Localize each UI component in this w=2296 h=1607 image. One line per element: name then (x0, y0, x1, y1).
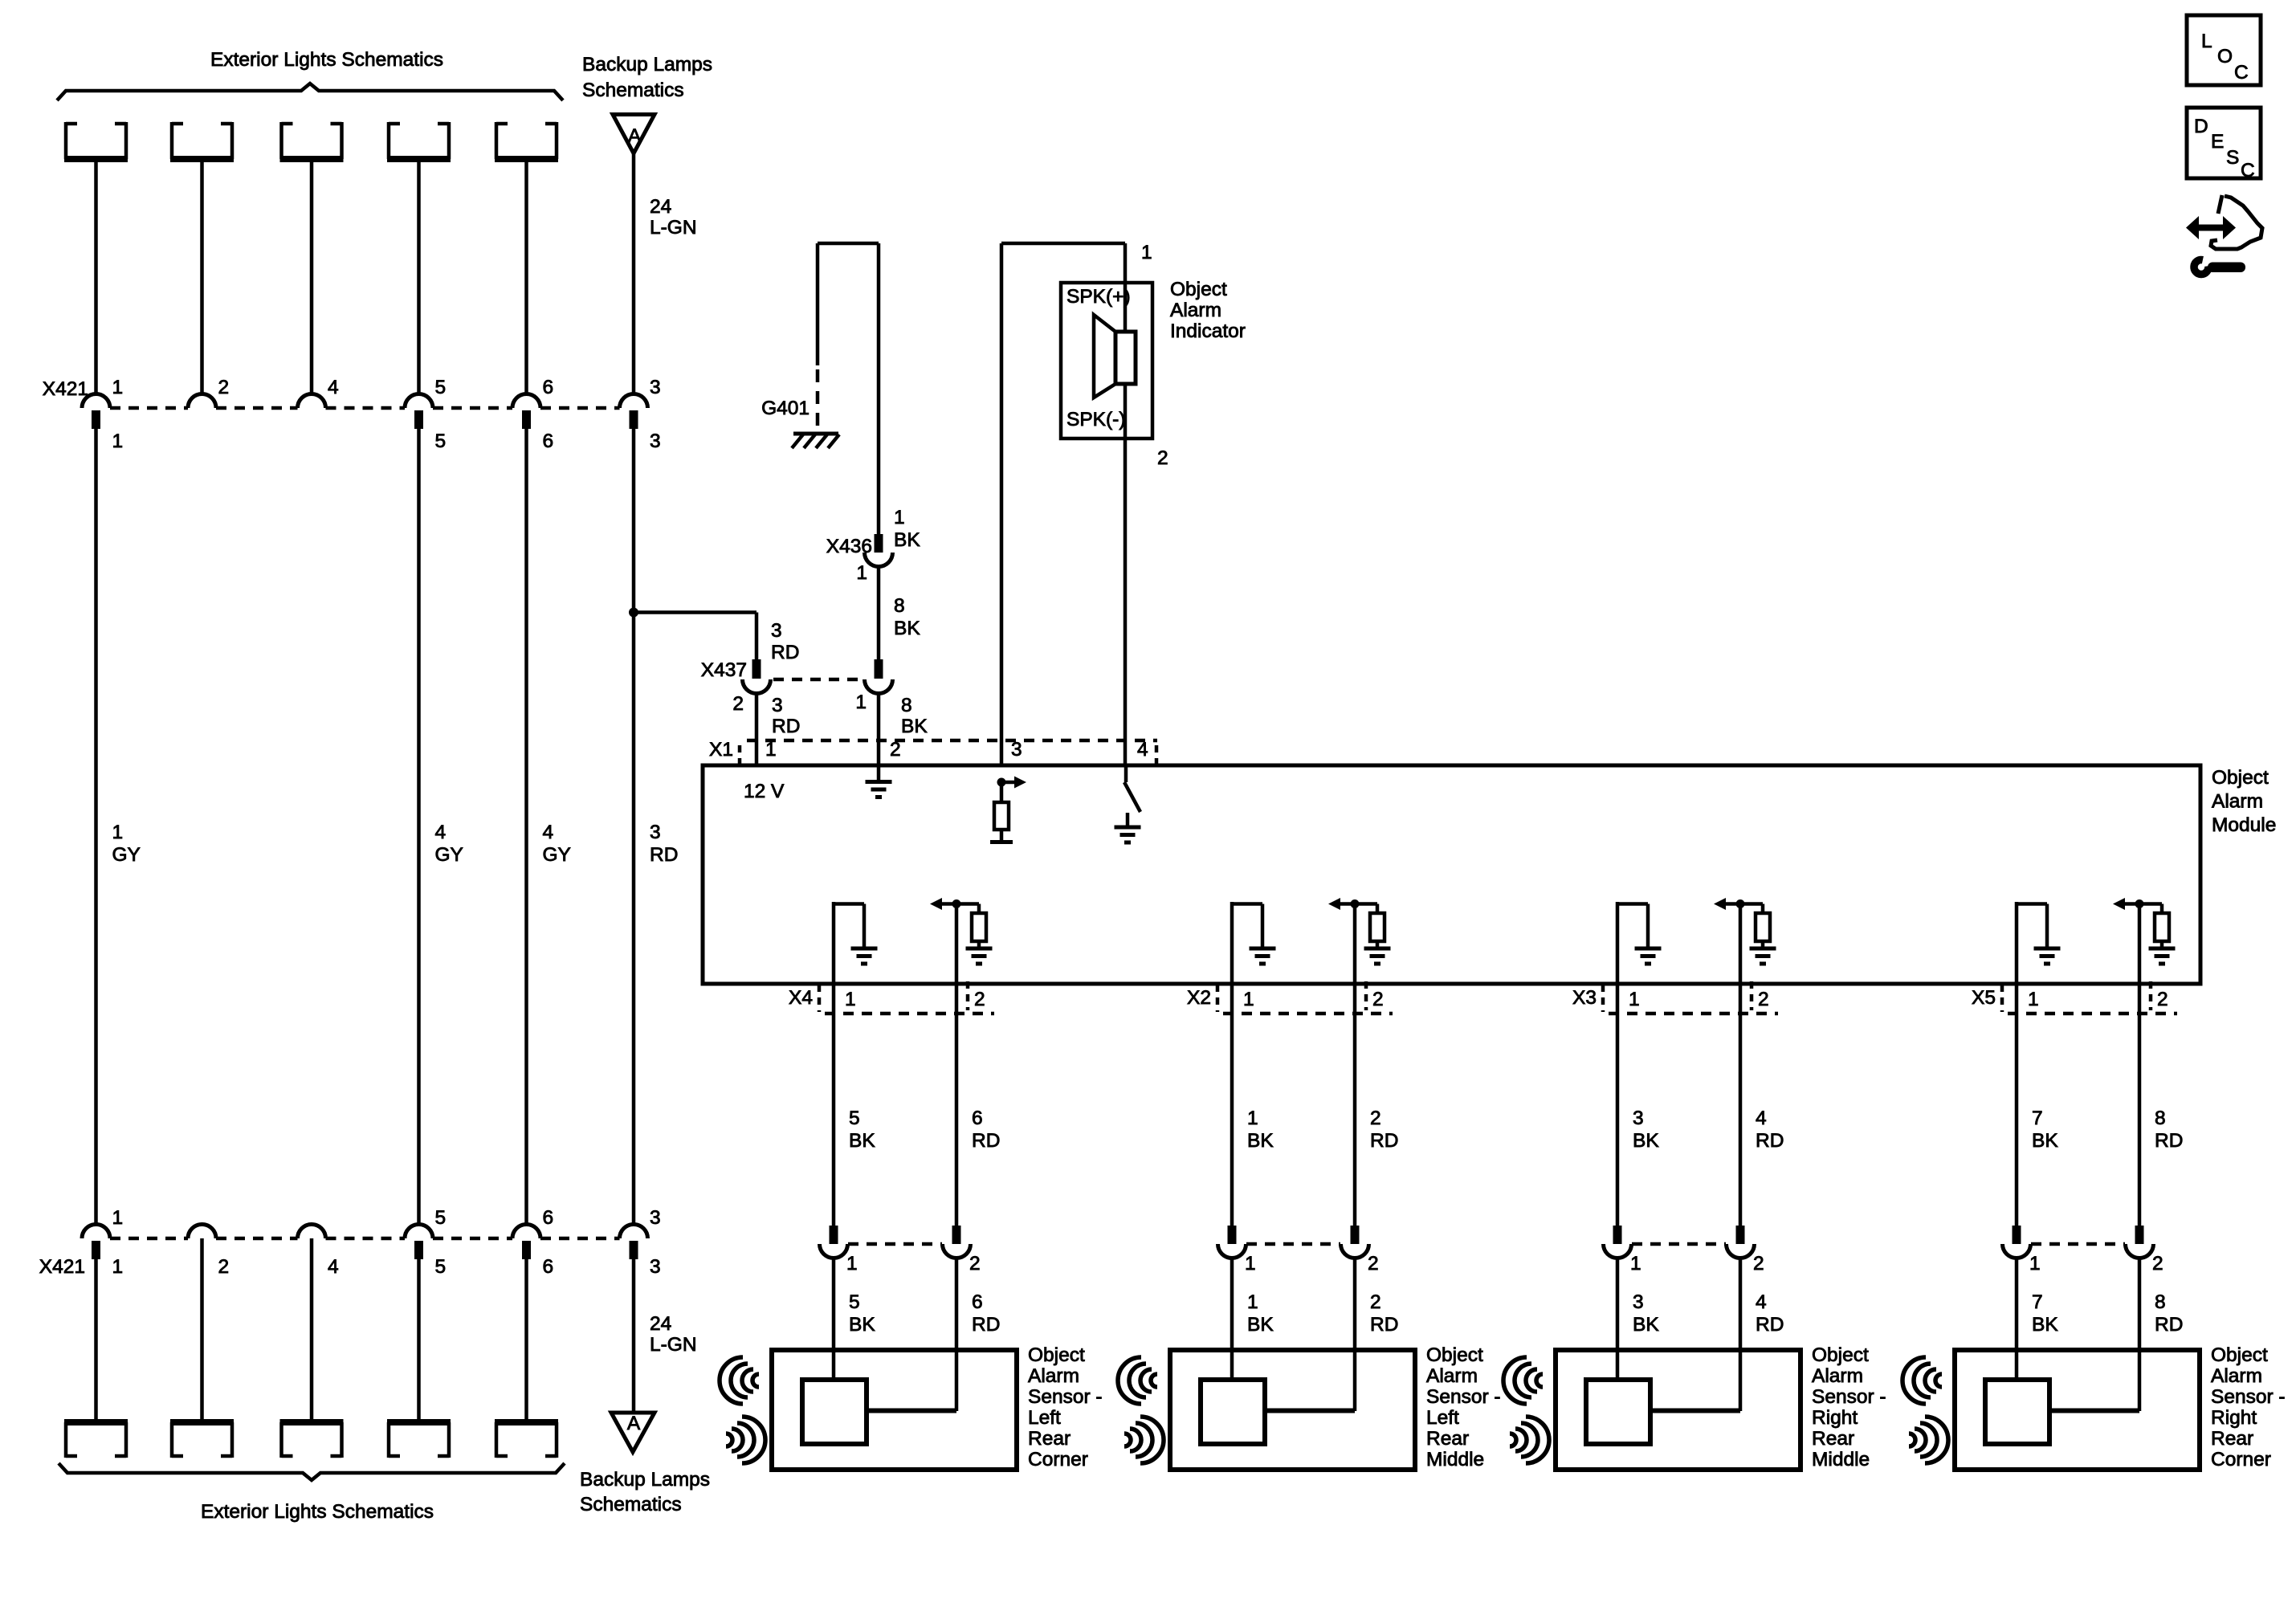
svg-text:1: 1 (1247, 1291, 1258, 1313)
svg-text:2: 2 (1370, 1291, 1381, 1313)
svg-text:1: 1 (1141, 242, 1152, 263)
svg-text:Left: Left (1028, 1407, 1061, 1429)
svg-text:RD: RD (1370, 1130, 1398, 1152)
svg-text:L-GN: L-GN (650, 1334, 697, 1356)
svg-text:7: 7 (2032, 1291, 2043, 1313)
svg-text:L: L (2201, 31, 2212, 52)
svg-text:6: 6 (972, 1291, 983, 1313)
svg-text:8: 8 (2155, 1107, 2166, 1129)
svg-text:BK: BK (1633, 1314, 1659, 1336)
svg-text:X2: X2 (1187, 987, 1211, 1009)
svg-text:5: 5 (435, 377, 447, 398)
svg-text:2: 2 (890, 739, 901, 761)
svg-text:1: 1 (112, 1207, 124, 1229)
svg-text:5: 5 (435, 430, 447, 452)
svg-text:3: 3 (650, 1256, 661, 1278)
svg-text:Alarm: Alarm (1426, 1365, 1478, 1387)
svg-text:L-GN: L-GN (650, 217, 697, 239)
svg-text:BK: BK (2032, 1314, 2058, 1336)
svg-text:C: C (2241, 160, 2255, 182)
svg-text:1: 1 (112, 377, 124, 398)
svg-text:8: 8 (894, 595, 905, 617)
svg-text:Alarm: Alarm (2212, 791, 2263, 813)
svg-text:1: 1 (856, 562, 867, 584)
svg-text:RD: RD (650, 844, 678, 866)
svg-text:BK: BK (1247, 1314, 1274, 1336)
svg-text:24: 24 (650, 1313, 671, 1335)
svg-text:1: 1 (1247, 1107, 1258, 1129)
svg-text:2: 2 (974, 989, 985, 1010)
svg-text:8: 8 (2155, 1291, 2166, 1313)
svg-text:3: 3 (650, 377, 661, 398)
svg-text:2: 2 (1368, 1253, 1379, 1275)
svg-text:RD: RD (972, 1130, 1000, 1152)
svg-text:Corner: Corner (2211, 1449, 2271, 1470)
svg-text:Object: Object (1028, 1344, 1085, 1366)
svg-text:D: D (2194, 116, 2208, 137)
svg-text:2: 2 (218, 1256, 230, 1278)
svg-text:6: 6 (972, 1107, 983, 1129)
svg-text:1: 1 (855, 691, 867, 713)
svg-text:Right: Right (1812, 1407, 1858, 1429)
svg-text:SPK(-): SPK(-) (1066, 409, 1126, 430)
svg-text:8: 8 (901, 695, 912, 716)
svg-text:1: 1 (765, 739, 777, 761)
svg-text:BK: BK (1247, 1130, 1274, 1152)
svg-text:Object: Object (1426, 1344, 1483, 1366)
svg-text:RD: RD (1370, 1314, 1398, 1336)
svg-text:RD: RD (2155, 1314, 2183, 1336)
svg-text:1: 1 (1243, 989, 1254, 1010)
svg-text:X421: X421 (43, 378, 88, 400)
svg-text:4: 4 (543, 822, 554, 843)
svg-text:BK: BK (1633, 1130, 1659, 1152)
svg-text:4: 4 (328, 377, 339, 398)
svg-text:Object: Object (1812, 1344, 1869, 1366)
svg-text:Right: Right (2211, 1407, 2257, 1429)
svg-text:7: 7 (2032, 1107, 2043, 1129)
svg-text:3: 3 (772, 695, 783, 716)
svg-text:4: 4 (1137, 739, 1148, 761)
svg-text:X421: X421 (39, 1256, 85, 1278)
svg-text:RD: RD (2155, 1130, 2183, 1152)
svg-text:3: 3 (771, 620, 782, 642)
svg-text:RD: RD (772, 716, 800, 737)
svg-text:5: 5 (849, 1107, 860, 1129)
svg-text:2: 2 (1370, 1107, 1381, 1129)
svg-text:BK: BK (849, 1314, 875, 1336)
svg-text:GY: GY (543, 844, 571, 866)
svg-text:2: 2 (1753, 1253, 1764, 1275)
svg-text:6: 6 (543, 1256, 554, 1278)
svg-text:BK: BK (849, 1130, 875, 1152)
svg-text:Rear: Rear (1812, 1428, 1854, 1450)
svg-text:1: 1 (1630, 1253, 1641, 1275)
svg-text:SPK(+): SPK(+) (1066, 286, 1131, 308)
svg-text:X4: X4 (789, 987, 813, 1009)
svg-text:6: 6 (543, 1207, 554, 1229)
svg-text:5: 5 (435, 1256, 447, 1278)
svg-text:6: 6 (543, 377, 554, 398)
svg-text:Indicator: Indicator (1170, 320, 1246, 342)
svg-text:X3: X3 (1572, 987, 1597, 1009)
svg-text:Middle: Middle (1426, 1449, 1484, 1470)
svg-text:Middle: Middle (1812, 1449, 1870, 1470)
svg-text:4: 4 (328, 1256, 339, 1278)
svg-text:3: 3 (1633, 1107, 1644, 1129)
svg-text:6: 6 (543, 430, 554, 452)
svg-text:A: A (628, 125, 642, 147)
svg-text:E: E (2211, 131, 2224, 153)
svg-text:5: 5 (435, 1207, 447, 1229)
svg-text:1: 1 (112, 1256, 124, 1278)
svg-text:C: C (2234, 62, 2249, 84)
svg-text:2: 2 (732, 693, 744, 715)
svg-text:Rear: Rear (2211, 1428, 2253, 1450)
svg-text:2: 2 (969, 1253, 981, 1275)
svg-text:X5: X5 (1972, 987, 1996, 1009)
svg-text:3: 3 (1633, 1291, 1644, 1313)
svg-text:RD: RD (1756, 1314, 1784, 1336)
svg-text:2: 2 (2157, 989, 2168, 1010)
svg-text:Sensor -: Sensor - (2211, 1386, 2286, 1408)
svg-text:4: 4 (435, 822, 447, 843)
svg-text:Exterior Lights Schematics: Exterior Lights Schematics (201, 1501, 434, 1523)
svg-text:1: 1 (846, 1253, 858, 1275)
svg-text:Object: Object (2212, 767, 2269, 789)
svg-text:1: 1 (112, 822, 124, 843)
svg-text:BK: BK (894, 529, 920, 551)
svg-text:24: 24 (650, 196, 671, 218)
svg-text:1: 1 (112, 430, 124, 452)
svg-text:Left: Left (1426, 1407, 1459, 1429)
svg-text:Schematics: Schematics (580, 1494, 682, 1515)
svg-text:O: O (2217, 46, 2233, 67)
svg-text:Exterior Lights Schematics: Exterior Lights Schematics (210, 49, 443, 71)
svg-text:3: 3 (650, 430, 661, 452)
svg-text:Object: Object (2211, 1344, 2268, 1366)
svg-text:1: 1 (2029, 1253, 2041, 1275)
svg-text:GY: GY (112, 844, 141, 866)
svg-text:BK: BK (2032, 1130, 2058, 1152)
svg-text:Sensor -: Sensor - (1812, 1386, 1886, 1408)
svg-text:4: 4 (1756, 1107, 1767, 1129)
svg-text:2: 2 (1372, 989, 1384, 1010)
svg-text:2: 2 (2152, 1253, 2163, 1275)
svg-text:BK: BK (894, 618, 920, 639)
svg-text:Alarm: Alarm (1170, 300, 1221, 321)
svg-text:12 V: 12 V (744, 781, 785, 802)
svg-text:2: 2 (1758, 989, 1769, 1010)
svg-text:GY: GY (435, 844, 463, 866)
svg-text:2: 2 (218, 377, 230, 398)
svg-text:1: 1 (894, 507, 905, 528)
svg-text:RD: RD (972, 1314, 1000, 1336)
svg-text:A: A (627, 1413, 641, 1434)
svg-text:Backup Lamps: Backup Lamps (580, 1469, 710, 1491)
svg-text:Schematics: Schematics (582, 80, 684, 101)
svg-text:3: 3 (650, 1207, 661, 1229)
svg-text:5: 5 (849, 1291, 860, 1313)
svg-text:1: 1 (1629, 989, 1640, 1010)
svg-text:Rear: Rear (1426, 1428, 1469, 1450)
svg-text:Alarm: Alarm (1028, 1365, 1079, 1387)
svg-text:1: 1 (2028, 989, 2039, 1010)
svg-text:RD: RD (771, 642, 799, 663)
svg-text:Sensor -: Sensor - (1028, 1386, 1103, 1408)
svg-text:3: 3 (650, 822, 661, 843)
svg-text:X1: X1 (709, 739, 733, 761)
svg-text:Corner: Corner (1028, 1449, 1088, 1470)
svg-text:Rear: Rear (1028, 1428, 1071, 1450)
svg-text:1: 1 (845, 989, 856, 1010)
svg-text:3: 3 (1011, 739, 1022, 761)
svg-text:Object: Object (1170, 279, 1227, 300)
svg-text:1: 1 (1245, 1253, 1256, 1275)
svg-text:4: 4 (1756, 1291, 1767, 1313)
svg-text:Alarm: Alarm (1812, 1365, 1863, 1387)
svg-text:BK: BK (901, 716, 928, 737)
svg-text:Module: Module (2212, 814, 2276, 836)
svg-text:Backup Lamps: Backup Lamps (582, 54, 712, 75)
svg-text:RD: RD (1756, 1130, 1784, 1152)
svg-text:Alarm: Alarm (2211, 1365, 2262, 1387)
svg-text:S: S (2226, 147, 2239, 169)
svg-text:G401: G401 (761, 398, 810, 419)
svg-text:Sensor -: Sensor - (1426, 1386, 1501, 1408)
svg-text:2: 2 (1157, 447, 1168, 469)
svg-text:X437: X437 (701, 659, 747, 681)
